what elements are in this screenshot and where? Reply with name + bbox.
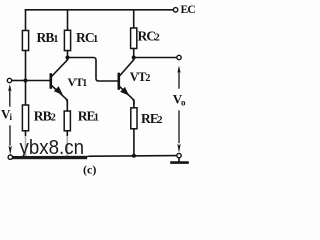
label RB1 <box>37 30 59 45</box>
label RE2 <box>141 111 163 126</box>
bottom-left terminal <box>8 155 12 159</box>
node RB2 ground <box>24 155 28 159</box>
transistor VT1 <box>51 57 68 105</box>
svg-text:1: 1 <box>93 34 98 45</box>
svg-text:2: 2 <box>157 115 162 126</box>
svg-text:2: 2 <box>155 33 160 44</box>
label Vi <box>1 106 13 122</box>
svg-text:RE: RE <box>141 111 159 126</box>
svg-text:i: i <box>10 112 13 122</box>
node base VT1 input <box>24 79 28 83</box>
caption (c) <box>83 163 96 177</box>
label Vo <box>173 91 186 107</box>
svg-text:VT: VT <box>68 75 84 89</box>
label VT2 <box>130 70 151 84</box>
watermark ybx8.cn <box>8 136 89 159</box>
label RB2 <box>34 109 56 124</box>
svg-text:RC: RC <box>138 29 156 44</box>
resistor RC1 <box>64 10 70 57</box>
resistor RB2 <box>22 81 28 157</box>
resistor RB1 <box>22 10 28 81</box>
svg-text:RC: RC <box>76 30 94 45</box>
node collector VT2 <box>132 56 136 60</box>
label RC2 <box>138 29 160 44</box>
node RE1 ground <box>66 155 70 159</box>
svg-text:(c): (c) <box>83 163 96 177</box>
svg-text:ybx8.cn: ybx8.cn <box>20 137 85 159</box>
svg-text:o: o <box>181 98 186 108</box>
svg-text:1: 1 <box>94 112 99 123</box>
resistor RE1 <box>64 100 70 156</box>
label EC <box>181 4 196 16</box>
power rail EC (top) <box>26 9 174 11</box>
label RE1 <box>78 108 99 123</box>
node RE2 ground <box>132 154 136 158</box>
output terminal <box>177 55 181 59</box>
svg-text:2: 2 <box>51 113 56 124</box>
terminal EC <box>173 8 177 12</box>
wire base VT1 <box>26 80 50 82</box>
label VT1 <box>68 75 88 89</box>
resistor RE2 <box>131 100 137 156</box>
wire output <box>134 57 177 59</box>
node collector VT1 <box>66 56 70 60</box>
svg-text:RB: RB <box>34 109 52 124</box>
svg-text:1: 1 <box>53 34 58 45</box>
svg-text:1: 1 <box>82 78 87 89</box>
svg-text:2: 2 <box>145 73 150 84</box>
ground <box>172 153 188 162</box>
label RC1 <box>76 30 98 45</box>
ground rail (bottom) <box>13 156 177 157</box>
resistor RC2 <box>131 10 137 57</box>
svg-text:RB: RB <box>37 30 55 45</box>
input terminal <box>7 78 11 82</box>
svg-text:EC: EC <box>181 4 196 16</box>
Vi arrow (input voltage) <box>8 84 12 155</box>
transistor VT2 <box>119 57 134 105</box>
wire coupling stage1-stage2 <box>68 58 118 82</box>
Vo arrow (output voltage) <box>177 66 180 154</box>
wire input <box>12 80 26 82</box>
